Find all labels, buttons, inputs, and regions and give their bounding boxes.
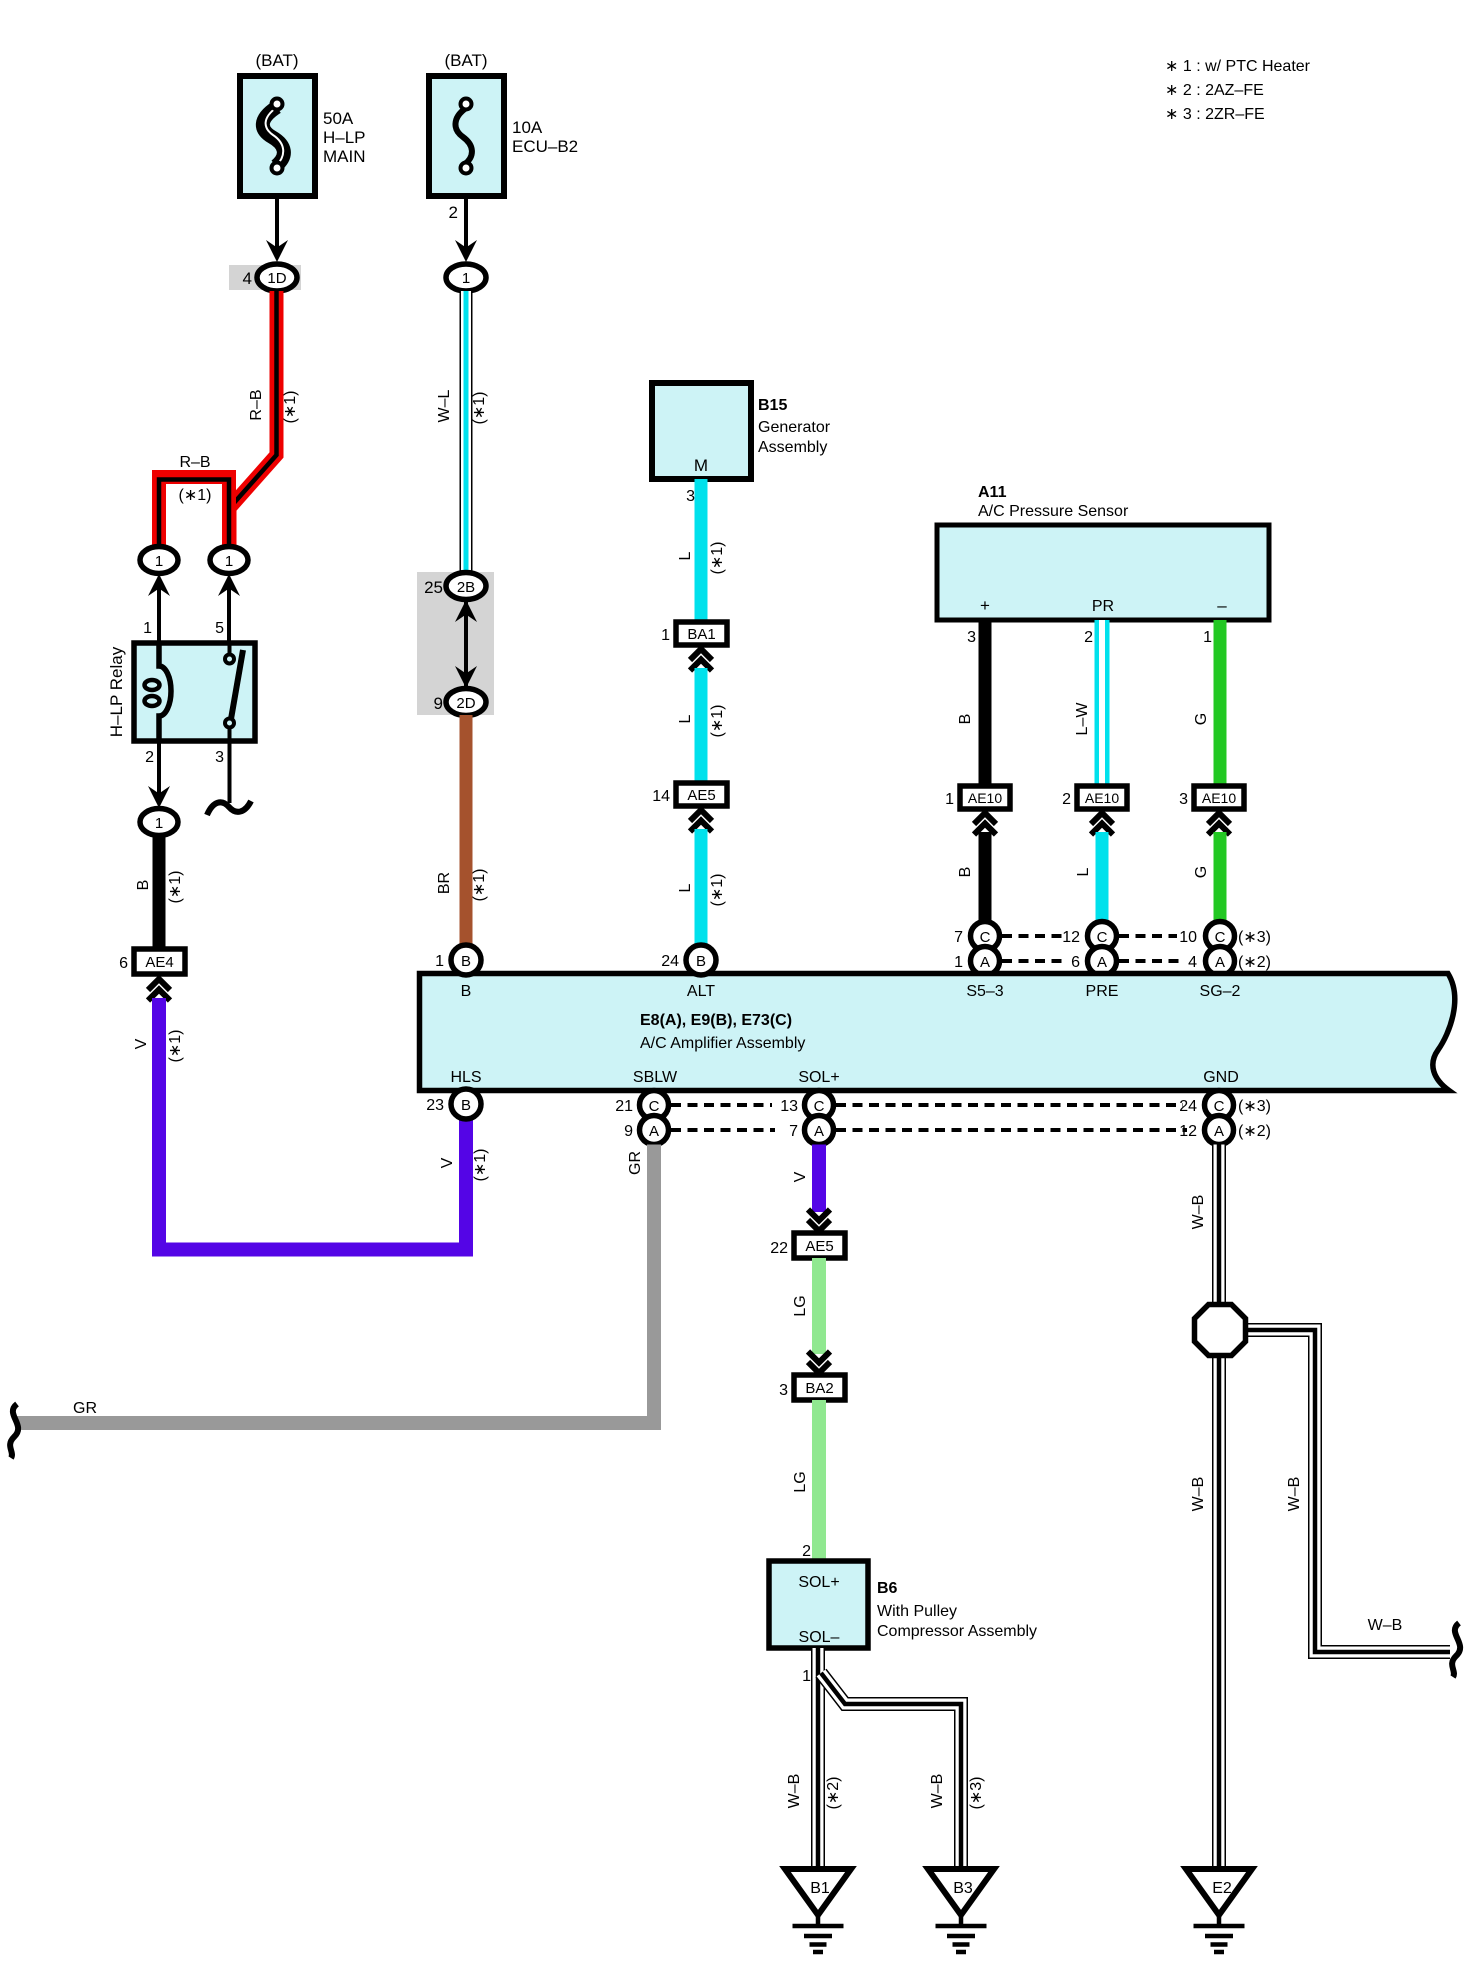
svg-text:L: L [677,883,694,892]
svg-text:R–B: R–B [179,454,210,471]
svg-text:BA2: BA2 [805,1380,833,1397]
node A6 [1088,947,1117,976]
node C12 [1088,922,1117,951]
svg-text:W–B: W–B [1190,1477,1207,1512]
connector AE10 (3) [1194,786,1244,809]
svg-text:H–LP: H–LP [323,128,366,147]
svg-text:W–B: W–B [1190,1195,1207,1230]
svg-text:W–B: W–B [1286,1477,1303,1512]
wire fuse2 pin 2 [464,196,468,255]
svg-text:B: B [957,714,974,725]
node B (HLS pin) [451,1089,481,1119]
connector 1 (relay switch) [210,547,248,574]
wire LG (BA2 to B6) [812,1400,826,1561]
node C21 [640,1091,669,1120]
connector 2D [446,689,486,716]
svg-text:(BAT): (BAT) [444,51,487,70]
svg-text:Assembly: Assembly [758,439,827,456]
svg-text:∗ 1 : w/ PTC Heater: ∗ 1 : w/ PTC Heater [1165,58,1311,75]
wire W-B GND A12 to junction [1212,1145,1226,1306]
svg-text:W–B: W–B [786,1774,803,1809]
svg-text:AE10: AE10 [1085,790,1119,806]
connector 2B [446,573,486,600]
svg-text:L: L [1075,867,1092,876]
svg-text:1: 1 [462,270,470,287]
svg-text:(∗3): (∗3) [1238,929,1271,946]
svg-text:∗ 3 : 2ZR–FE: ∗ 3 : 2ZR–FE [1165,106,1265,123]
connector AE10 (1) [960,786,1010,809]
wire B (*1) black [153,836,166,950]
svg-text:AE5: AE5 [805,1238,833,1255]
svg-text:(∗2): (∗2) [1238,1123,1271,1140]
dashes A9-A7 [671,1128,775,1132]
svg-text:V: V [792,1171,809,1182]
svg-text:A/C Pressure Sensor: A/C Pressure Sensor [978,503,1129,520]
wire G green (AE10 to SG-2) [1214,832,1227,922]
svg-text:(∗1): (∗1) [167,1030,184,1063]
connector 1 (ECU-B2) [446,264,486,291]
svg-text:+: + [980,596,990,615]
node A12 [1205,1116,1234,1145]
svg-text:AE4: AE4 [145,954,173,971]
dashes A6-A4 [1119,959,1183,963]
svg-text:SOL–: SOL– [799,1629,840,1646]
svg-text:21: 21 [615,1098,633,1115]
svg-text:A: A [1097,954,1107,971]
svg-text:(∗1): (∗1) [709,874,726,907]
dashes C13-C24 [836,1103,1183,1107]
svg-text:LG: LG [792,1471,809,1492]
W-B wire break squiggle [1452,1623,1460,1677]
svg-text:1: 1 [945,791,954,808]
junction 2B/2D gray band [417,572,494,715]
label B15 Generator Assembly [758,397,831,456]
svg-text:S5–3: S5–3 [966,983,1003,1000]
svg-text:6: 6 [119,955,128,972]
svg-text:(∗3): (∗3) [968,1777,985,1810]
wire 2B to 2D with arrows [464,600,468,688]
connector 1D [257,264,297,291]
svg-text:24: 24 [661,953,679,970]
svg-text:9: 9 [624,1123,633,1140]
svg-text:B: B [135,880,152,891]
connector AE4 [134,949,185,974]
svg-text:(∗1): (∗1) [179,487,212,504]
svg-text:W–L: W–L [436,389,453,422]
svg-text:A: A [649,1123,659,1140]
svg-text:1: 1 [661,627,670,644]
node A4 [1206,947,1235,976]
svg-text:(∗1): (∗1) [282,391,299,424]
svg-text:B: B [696,953,706,970]
fuse 10A ECU-B2 [429,76,504,196]
wire L blue (AE5 to ALT) [695,829,708,946]
dashes A1-A6 [1002,959,1068,963]
node C24 [1205,1091,1234,1120]
svg-text:R–B: R–B [248,389,265,420]
fuse 50A H-LP MAIN [240,76,315,196]
svg-text:C: C [1214,1098,1225,1115]
node A1 [971,947,1000,976]
svg-text:25: 25 [424,578,443,597]
svg-text:B: B [461,983,472,1000]
svg-text:1: 1 [225,553,233,570]
svg-text:(BAT): (BAT) [255,51,298,70]
svg-text:2: 2 [1062,791,1071,808]
wire W-B (*3) branch B6 to B3 [821,1673,961,1871]
svg-text:LG: LG [792,1295,809,1316]
connector 1D gray band [229,265,301,290]
svg-text:E2: E2 [1212,1880,1232,1897]
svg-text:4: 4 [243,269,252,288]
svg-text:14: 14 [652,788,670,805]
wire BR brown [460,715,473,945]
svg-text:(∗1): (∗1) [472,1149,489,1182]
svg-text:V: V [439,1157,456,1168]
svg-text:HLS: HLS [450,1069,481,1086]
svg-text:(∗1): (∗1) [471,392,488,425]
svg-text:6: 6 [1071,954,1080,971]
svg-text:BA1: BA1 [687,626,715,643]
wire B black (AE10 to S5-3) [979,832,992,922]
svg-text:AE10: AE10 [968,790,1002,806]
label A11 A/C Pressure Sensor [978,484,1129,520]
node C13 [805,1091,834,1120]
svg-text:10A: 10A [512,118,543,137]
svg-text:A: A [1215,954,1225,971]
wire fuse1 to connector 1D [275,196,279,255]
wire LG (AE5 to BA2) [812,1258,826,1354]
node B (B pin) [451,945,481,975]
svg-text:12: 12 [1062,929,1080,946]
svg-text:SBLW: SBLW [633,1069,678,1086]
svg-text:B6: B6 [877,1580,898,1597]
svg-text:1D: 1D [267,270,286,287]
svg-text:Compressor Assembly: Compressor Assembly [877,1623,1037,1640]
svg-text:L–W: L–W [1074,702,1091,736]
amplifier title [640,1012,805,1052]
relay coil [145,643,172,741]
svg-text:(∗1): (∗1) [709,705,726,738]
svg-text:ALT: ALT [687,983,715,1000]
wire L blue (BA1 to AE5) [695,668,708,783]
svg-text:A: A [980,954,990,971]
svg-text:B1: B1 [810,1880,830,1897]
wire L blue (AE10 to PRE) [1096,832,1109,922]
pin3 open end squiggle [207,801,251,815]
wire W-B junction branch right [1244,1330,1450,1652]
svg-text:3: 3 [779,1382,788,1399]
svg-text:L: L [677,551,694,560]
connector AE5 (22) [794,1233,845,1258]
svg-text:C: C [980,929,991,946]
svg-text:G: G [1193,866,1210,878]
wire W-B junction to E2 [1212,1355,1226,1871]
svg-text:PRE: PRE [1086,983,1119,1000]
svg-text:1: 1 [1203,629,1212,646]
wire G green (A11 to AE10) [1214,620,1227,786]
A/C pressure sensor A11 box [937,525,1269,620]
svg-text:3: 3 [967,629,976,646]
svg-text:SOL+: SOL+ [798,1069,839,1086]
svg-text:A: A [1214,1123,1224,1140]
svg-text:E8(A), E9(B), E73(C): E8(A), E9(B), E73(C) [640,1012,792,1029]
node A9 [640,1116,669,1145]
svg-text:BR: BR [436,872,453,894]
node A7 [805,1116,834,1145]
wire R-B from 1D [230,291,277,546]
svg-text:MAIN: MAIN [323,147,366,166]
svg-text:A11: A11 [978,484,1007,501]
svg-text:C: C [649,1098,660,1115]
A/C amplifier assembly box [420,974,1455,1091]
svg-text:3: 3 [1179,791,1188,808]
svg-text:AE10: AE10 [1202,790,1236,806]
svg-text:With Pulley: With Pulley [877,1603,957,1620]
svg-text:V: V [133,1038,150,1049]
svg-text:9: 9 [434,694,443,713]
svg-text:2: 2 [802,1543,811,1560]
svg-text:C: C [814,1098,825,1115]
svg-text:1: 1 [143,620,152,637]
svg-text:(∗3): (∗3) [1238,1098,1271,1115]
svg-text:B3: B3 [953,1880,973,1897]
svg-text:G: G [1193,713,1210,725]
svg-text:22: 22 [770,1240,788,1257]
connector BA2 [794,1375,845,1400]
connector AE5 [676,783,727,806]
svg-text:∗ 2 : 2AZ–FE: ∗ 2 : 2AZ–FE [1165,82,1264,99]
svg-text:M: M [694,456,708,475]
svg-text:SOL+: SOL+ [798,1574,839,1591]
svg-text:(∗2): (∗2) [1238,954,1271,971]
dashes C7-C12 [1002,934,1062,938]
node C10 [1206,922,1235,951]
wire relay pin5 up [227,585,231,643]
svg-text:7: 7 [789,1123,798,1140]
svg-text:2: 2 [1084,629,1093,646]
wire W-B (*2) B6 to B1 [811,1648,825,1871]
svg-text:–: – [1217,596,1227,615]
svg-text:L: L [677,714,694,723]
wire V violet (A7 to AE5) [812,1145,826,1213]
junction octagon [1195,1305,1246,1356]
wire R-B loop to relay ovals [159,477,229,546]
svg-text:2D: 2D [456,695,475,712]
connector 1 (relay coil) [140,547,178,574]
dashes A7-A12 [836,1128,1187,1132]
svg-text:(∗1): (∗1) [167,871,184,904]
wire relay pin1 up [157,585,161,643]
svg-text:1: 1 [155,553,163,570]
GR wire break squiggle [10,1404,18,1458]
node C7 [971,922,1000,951]
svg-text:2: 2 [145,749,154,766]
svg-text:C: C [1215,929,1226,946]
svg-text:(∗1): (∗1) [471,869,488,902]
svg-text:GND: GND [1203,1069,1239,1086]
svg-text:23: 23 [426,1097,444,1114]
wire L blue (gen to BA1) [695,479,708,623]
ground E2 [1186,1869,1252,1952]
svg-text:5: 5 [215,620,224,637]
wire B black (A11 to AE10) [979,620,992,786]
svg-text:SG–2: SG–2 [1200,983,1241,1000]
svg-text:Generator: Generator [758,419,831,436]
generator assembly B15 box [652,383,751,479]
node B (ALT pin) [686,945,716,975]
svg-text:W–B: W–B [1368,1617,1403,1634]
relay switch [225,643,243,741]
svg-text:24: 24 [1179,1098,1197,1115]
svg-text:H–LP Relay: H–LP Relay [107,646,126,737]
label B6 With Pulley Compressor Assembly [877,1580,1037,1640]
svg-text:ECU–B2: ECU–B2 [512,137,578,156]
svg-text:C: C [1097,929,1108,946]
wire L-W double blue (A11 to AE10) [1095,620,1110,786]
svg-text:B15: B15 [758,397,787,414]
wire relay pin2 down [157,741,161,800]
svg-text:3: 3 [686,488,695,505]
svg-text:12: 12 [1179,1123,1197,1140]
svg-text:10: 10 [1179,929,1197,946]
ground B1 [785,1869,851,1952]
svg-text:B: B [461,953,471,970]
svg-text:GR: GR [627,1151,644,1175]
svg-text:(∗2): (∗2) [825,1777,842,1810]
svg-text:A/C Amplifier Assembly: A/C Amplifier Assembly [640,1035,805,1052]
svg-text:B: B [461,1097,471,1114]
wire relay pin3 down [228,741,232,803]
svg-text:13: 13 [780,1098,798,1115]
connector 1 (below relay) [140,809,178,836]
svg-text:(∗1): (∗1) [709,542,726,575]
compressor assembly B6 box [769,1561,868,1648]
svg-text:1: 1 [155,815,163,832]
ground B3 [928,1869,994,1952]
svg-text:GR: GR [73,1400,97,1417]
svg-text:3: 3 [215,749,224,766]
svg-text:A: A [814,1123,824,1140]
wire V (*1) violet [159,998,466,1250]
svg-text:50A: 50A [323,109,354,128]
connector BA1 [676,622,727,645]
dashes C12-C10 [1119,934,1177,938]
wire W-L white/blue [460,291,473,572]
svg-text:1: 1 [802,1668,811,1685]
connector AE10 (2) [1077,786,1127,809]
dashes C21-C13 [671,1103,772,1107]
svg-text:1: 1 [954,954,963,971]
svg-text:2: 2 [449,203,458,222]
svg-text:7: 7 [954,929,963,946]
svg-text:AE5: AE5 [687,787,715,804]
svg-text:2B: 2B [457,579,475,596]
svg-text:4: 4 [1188,954,1197,971]
svg-text:1: 1 [435,953,444,970]
relay H-LP Relay box [134,643,255,741]
svg-text:B: B [957,867,974,878]
wire GR gray [17,1145,654,1424]
svg-text:W–B: W–B [929,1774,946,1809]
svg-text:PR: PR [1092,598,1114,615]
